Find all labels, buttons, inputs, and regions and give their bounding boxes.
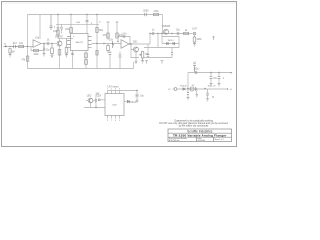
- ground: [210, 84, 213, 86]
- wire led top stub: [95, 95, 97, 99]
- svg-text:3: 3: [115, 89, 116, 91]
- capacitor C19 stub b: [109, 52, 112, 54]
- LED D4: [88, 98, 93, 103]
- ground: [195, 95, 198, 97]
- title block box: [168, 129, 232, 142]
- resistor R14 rail x117: [116, 22, 119, 38]
- svg-text:2N5457: 2N5457: [55, 37, 64, 39]
- svg-text:6: 6: [115, 120, 116, 122]
- svg-text:2N5088: 2N5088: [162, 26, 171, 28]
- svg-text:DC: DC: [168, 89, 172, 91]
- resistor R3 on feedback rail: [26, 56, 28, 61]
- ground: [135, 61, 138, 63]
- ground: [51, 54, 54, 58]
- wire U4 bottom pin stubs: [108, 116, 120, 119]
- wire vref cap stub: [207, 89, 209, 93]
- wire rail feed x97: [96, 15, 98, 69]
- resistor R15 series to ground: [107, 44, 110, 54]
- capacitor C7 under U2 pin: [71, 53, 74, 55]
- wire rail feed x117: [116, 22, 118, 37]
- wire Q1 collector to U2: [58, 38, 73, 40]
- inner border top line: [3, 2, 237, 4]
- ground: [206, 99, 209, 101]
- diode D5: [127, 100, 129, 102]
- capacitor C21 x148: [147, 54, 150, 56]
- resistor R7 Q1 emitter: [58, 50, 61, 56]
- wire power cap a stub: [210, 73, 212, 77]
- connector J4 header: [98, 99, 100, 101]
- capacitor C20 stub c: [119, 55, 122, 57]
- op-amp U1: [33, 40, 41, 48]
- wire rail feed x58: [57, 15, 59, 39]
- wire power cap b lower: [218, 79, 220, 84]
- capacitor C23 x172: [171, 52, 173, 54]
- diode D2 upper branch: [167, 42, 169, 44]
- capacitor C24: [60, 27, 63, 29]
- wire led cap drop: [95, 103, 97, 108]
- wire U3 feedback: [118, 37, 130, 45]
- wire signal U2 to U3: [92, 43, 122, 45]
- svg-text:Sheet 1 of 1: Sheet 1 of 1: [215, 138, 224, 141]
- capacitor C10 top rail: [145, 13, 147, 16]
- wire vdd drop x61.5: [61, 24, 63, 33]
- wire lfo line: [131, 50, 139, 58]
- ground: [141, 61, 144, 63]
- wire power top rail: [188, 72, 232, 74]
- resistor R1: [9, 49, 11, 53]
- capacitor C9 U3 feedback: [123, 35, 125, 38]
- capacitor C5 above U2: [86, 20, 89, 22]
- wire U2 bottom pin2 to rail: [85, 51, 87, 69]
- connector J1 input jack: [4, 46, 7, 48]
- IC U4 DIP: [105, 94, 124, 116]
- resistor R18 output load: [193, 35, 196, 42]
- wire U2 bottom pin1 to rail: [72, 51, 74, 69]
- diode D3 lower branch: [173, 42, 175, 44]
- placeholder groups: components / labels / titleblock inserted below: [4, 13, 229, 116]
- tick node B: [161, 61, 164, 64]
- wire Q1 emitter to bottom rail: [59, 47, 61, 69]
- resistor R2: [19, 45, 24, 47]
- wire left rail: [27, 15, 29, 69]
- capacitor C18 u4: [136, 94, 139, 97]
- capacitor C2: [47, 42, 49, 45]
- IC U2 BBD: [71, 34, 89, 51]
- capacitor C13 power rail: [195, 71, 197, 74]
- connector J3 dc jack: [173, 88, 177, 91]
- wire stub bottom c: [119, 52, 121, 69]
- svg-text:100k: 100k: [197, 39, 203, 41]
- wire led left stub: [86, 100, 88, 102]
- resistor R9 above U2: [70, 28, 73, 34]
- svg-text:A TR2100.sch: A TR2100.sch: [169, 139, 180, 142]
- svg-text:5: 5: [119, 120, 120, 122]
- ground: [9, 53, 12, 57]
- wire rail feed x87 cap branch: [86, 15, 88, 34]
- trimpot T1: [193, 64, 196, 73]
- wire U1 bias from rail: [39, 15, 41, 40]
- battery BT1: [190, 87, 197, 91]
- wire feedback drop x158: [157, 34, 159, 48]
- wire U4 top bus: [108, 90, 138, 92]
- wire op-amp U1 output: [41, 43, 57, 45]
- wire power cap b stub: [218, 73, 220, 77]
- wire riser to mix line: [149, 34, 151, 45]
- wire feedback lower: [144, 44, 179, 48]
- wire input line: [7, 46, 34, 48]
- node junction dots: [9, 46, 10, 47]
- ground: [193, 42, 196, 46]
- ground: [136, 100, 139, 102]
- wire lfo bottom riser: [171, 48, 173, 58]
- svg-text:100k: 100k: [34, 54, 40, 56]
- wire footswitch bus: [84, 107, 105, 109]
- wire battery minus drop: [196, 90, 198, 94]
- resistor R17 mix line: [184, 32, 189, 34]
- svg-text:4: 4: [119, 89, 120, 91]
- svg-text:100u: 100u: [193, 69, 199, 71]
- op-amp U3: [121, 40, 129, 49]
- wire U3 output: [129, 43, 150, 45]
- svg-text:1N4001: 1N4001: [180, 86, 188, 88]
- resistor R5: [51, 44, 54, 54]
- svg-text:1N914: 1N914: [167, 40, 174, 42]
- svg-text:by the online diy community: by the online diy community: [179, 125, 209, 128]
- capacitor C17 led: [95, 98, 96, 103]
- wire lfo bottom line: [144, 57, 172, 59]
- wire led anode drop: [90, 103, 92, 108]
- capacitor C14 filter: [210, 77, 213, 79]
- svg-text:470k: 470k: [154, 11, 160, 13]
- svg-text:1M: 1M: [11, 51, 14, 53]
- resistor R11 under U2: [85, 53, 88, 58]
- resistor R6 on x58 feed: [57, 30, 59, 35]
- transistor Q3: [164, 29, 169, 34]
- svg-text:100u .05: 100u .05: [207, 85, 216, 87]
- wire bottom rail riser: [133, 62, 135, 69]
- wire right drop from top rail: [162, 15, 164, 34]
- capacitor C1: [12, 45, 17, 48]
- wire mix line: [150, 33, 193, 35]
- ground: [187, 98, 190, 100]
- svg-text:LED: LED: [87, 96, 92, 98]
- resistor R8 to ground: [65, 39, 68, 54]
- wire U4 cap ground drop: [136, 98, 138, 100]
- ground: [65, 53, 68, 57]
- svg-text:.047: .047: [12, 43, 17, 45]
- transistor Q1: [57, 41, 62, 46]
- connector J2 output jack: [193, 32, 196, 35]
- ground: [43, 52, 46, 56]
- wire rail feed x108: [107, 22, 109, 40]
- potentiometer P1: [139, 52, 144, 61]
- capacitor C3: [43, 44, 45, 53]
- svg-text:OUT: OUT: [192, 29, 197, 31]
- svg-text:8: 8: [107, 120, 108, 122]
- resistor R12 under U2: [85, 60, 88, 65]
- ground: [218, 84, 221, 86]
- svg-text:4/12/2003: 4/12/2003: [198, 140, 206, 142]
- svg-text:1: 1: [107, 89, 108, 91]
- wire Q2 emitter: [135, 52, 137, 61]
- wire U4 top pin stubs: [108, 91, 120, 94]
- svg-text:CLR: CLR: [97, 96, 102, 98]
- wire bottom rail: [28, 68, 134, 70]
- capacitor C6 rail x51: [50, 15, 53, 31]
- svg-text:J201: J201: [133, 42, 139, 44]
- capacitor C16 vref: [206, 93, 209, 95]
- wire U1 feedback: [31, 44, 44, 51]
- wire vref cap drop: [207, 95, 209, 98]
- wire led link: [93, 100, 95, 102]
- sheet border frame: [2, 2, 237, 147]
- svg-text:U1a: U1a: [35, 38, 40, 40]
- svg-text:TR-2100 Variable Analog Flange: TR-2100 Variable Analog Flanger: [173, 134, 227, 138]
- note text above title block: [159, 120, 228, 128]
- svg-text:7: 7: [111, 120, 112, 122]
- wire ground stub x188: [187, 94, 189, 97]
- capacitor C12 mix line: [177, 32, 179, 35]
- capacitor C11 mix line: [152, 32, 154, 35]
- wire power left riser: [187, 73, 189, 93]
- wire Q1 collector: [59, 39, 61, 41]
- capacitor C22 battery side: [187, 93, 189, 95]
- U2 right pin stubs: [88, 37, 92, 48]
- transistor Q2: [134, 47, 139, 52]
- node arrow vref: [226, 88, 229, 90]
- wire power mid rail: [177, 88, 226, 90]
- node supply mark: [212, 36, 215, 40]
- wire regen loop: [162, 34, 179, 44]
- wire vdd rail: [56, 23, 99, 25]
- wire rail feed x71: [70, 15, 72, 34]
- diode D1 polarity: [183, 88, 185, 90]
- wire power cap a lower: [210, 79, 212, 84]
- wire connector to U4: [100, 99, 105, 101]
- capacitor C8 at node: [112, 41, 114, 48]
- wire top rail: [28, 14, 163, 16]
- svg-text:2: 2: [111, 89, 112, 91]
- tick node A: [145, 61, 148, 64]
- resistor R19 x97 lower: [96, 51, 98, 56]
- wire U4 right cap drop: [136, 91, 138, 94]
- svg-text:1N914: 1N914: [129, 102, 136, 104]
- resistor R10 on x97: [96, 28, 98, 33]
- capacitor C4 on x58 feed: [57, 27, 60, 29]
- wire stub bottom b: [109, 51, 111, 69]
- svg-text:U1b: U1b: [122, 34, 127, 36]
- resistor R4 feedback: [34, 49, 39, 51]
- capacitor C15 filter: [218, 77, 221, 79]
- resistor R16 top rail: [154, 13, 159, 15]
- wire U4 right diode stub: [124, 101, 127, 103]
- svg-text:LFO board: LFO board: [108, 86, 120, 89]
- wire Q2 base feed: [131, 44, 134, 50]
- resistor R13 rail x108: [107, 22, 110, 38]
- U2 left pin stubs: [67, 37, 71, 48]
- svg-text:.0056: .0056: [143, 11, 149, 13]
- svg-text:SAD512: SAD512: [75, 41, 84, 44]
- wire stub x148: [147, 44, 149, 58]
